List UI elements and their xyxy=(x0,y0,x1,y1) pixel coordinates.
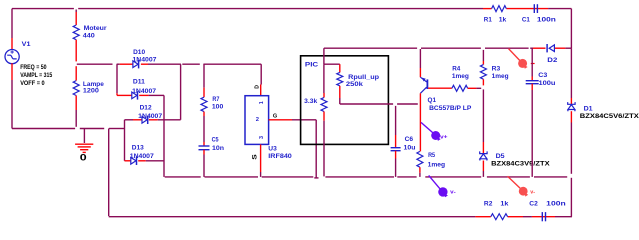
wire Q1 base row xyxy=(428,87,452,89)
svg-text:VAMPL = 315: VAMPL = 315 xyxy=(20,72,52,79)
svg-text:Moteur: Moteur xyxy=(84,25,107,32)
wire vertical D12-D13 xyxy=(124,120,126,161)
block PIC xyxy=(301,56,389,145)
wire Rpull_up top link xyxy=(324,64,340,72)
svg-text:100n: 100n xyxy=(537,16,556,23)
svg-text:100u: 100u xyxy=(539,80,556,87)
voltage source V1 xyxy=(5,41,31,64)
wire U3 gate row xyxy=(269,119,317,121)
wire supply corner into PIC xyxy=(323,48,325,97)
probe v- blue on mid rail xyxy=(429,175,456,197)
svg-text:0: 0 xyxy=(80,153,87,163)
svg-text:D12: D12 xyxy=(140,105,152,112)
wire gate net vertical xyxy=(314,120,318,178)
svg-text:FREQ = 50: FREQ = 50 xyxy=(20,64,47,71)
resistor R1 1k xyxy=(484,6,507,24)
svg-text:C5: C5 xyxy=(212,137,219,144)
svg-text:1N4007: 1N4007 xyxy=(138,113,162,120)
label V1 parameters xyxy=(20,64,52,87)
wire C3 bottom to mid rail xyxy=(531,84,533,177)
svg-text:3: 3 xyxy=(259,136,265,139)
wire V1 bottom xyxy=(11,63,13,128)
svg-text:BZX84C5V6/ZTX: BZX84C5V6/ZTX xyxy=(580,114,639,120)
svg-text:R4: R4 xyxy=(452,66,460,73)
svg-text:D13: D13 xyxy=(132,145,144,152)
wire vertical main row down to D12 row xyxy=(180,64,182,120)
svg-text:440: 440 xyxy=(83,33,95,40)
svg-text:v-: v- xyxy=(530,189,535,195)
wire D5 bottom xyxy=(482,161,484,177)
wire ground stub xyxy=(83,129,85,144)
svg-text:D5: D5 xyxy=(496,153,505,160)
wire main row to diode bridge xyxy=(77,63,261,65)
resistor R7 100 xyxy=(201,96,224,111)
svg-text:1N4007: 1N4007 xyxy=(130,153,154,160)
svg-text:R5: R5 xyxy=(428,152,435,159)
wire mid rail xyxy=(165,176,568,178)
ground 0 xyxy=(75,144,93,162)
wire R7 branch xyxy=(203,64,205,97)
diode D11 1N4007 xyxy=(132,79,157,100)
resistor 3.3k xyxy=(304,98,327,112)
svg-text:R7: R7 xyxy=(212,96,219,103)
svg-text:1: 1 xyxy=(259,101,265,104)
svg-text:100n: 100n xyxy=(546,200,566,207)
wire Rpull_up output row xyxy=(340,103,418,105)
svg-text:S: S xyxy=(253,154,259,160)
svg-text:v-: v- xyxy=(450,189,456,195)
wire D11 row xyxy=(117,94,164,96)
wire U3 drain from main row xyxy=(260,64,263,96)
svg-text:PIC: PIC xyxy=(305,62,319,69)
svg-text:D2: D2 xyxy=(547,57,557,64)
svg-text:VOFF = 0: VOFF = 0 xyxy=(20,80,45,87)
wire Q1 collector down to R5 xyxy=(419,93,421,151)
probe v- red on mid rail xyxy=(508,176,536,196)
wire red tick at C3 vertical xyxy=(531,63,535,65)
wire right vertical D2 to D1 xyxy=(570,48,572,104)
svg-text:D10: D10 xyxy=(133,49,145,56)
svg-text:C1: C1 xyxy=(522,16,530,23)
svg-text:1meg: 1meg xyxy=(492,73,509,80)
svg-text:D1: D1 xyxy=(584,105,593,112)
wire R5 bottom xyxy=(419,167,421,177)
svg-text:2: 2 xyxy=(256,117,259,123)
diode D12 1N4007 xyxy=(138,105,162,125)
zener diode D5 BZX84C3V9 xyxy=(480,151,550,167)
svg-text:Q1: Q1 xyxy=(428,97,437,104)
svg-text:10n: 10n xyxy=(212,145,224,152)
resistor Lampe 1200 xyxy=(73,81,104,96)
svg-text:1200: 1200 xyxy=(83,87,99,94)
svg-text:v+: v+ xyxy=(440,134,448,140)
svg-text:250k: 250k xyxy=(346,81,363,88)
wire right vertical from top rail xyxy=(570,9,572,49)
svg-text:IRF840: IRF840 xyxy=(268,153,292,160)
svg-text:U3: U3 xyxy=(268,145,277,152)
resistor Rpull_up 250k xyxy=(337,72,379,88)
wire Rpull_up bottom xyxy=(339,86,341,104)
svg-text:100: 100 xyxy=(212,104,224,111)
svg-text:BC557B/P LP: BC557B/P LP xyxy=(429,105,472,112)
svg-text:BZX84C3V9/ZTX: BZX84C3V9/ZTX xyxy=(491,162,549,168)
wire vertical D11 down to D13 row xyxy=(163,95,165,176)
svg-text:1N4007: 1N4007 xyxy=(132,88,156,95)
mosfet U3 IRF840 xyxy=(245,85,292,160)
svg-text:1meg: 1meg xyxy=(428,162,446,169)
capacitor C3 100u xyxy=(526,72,556,87)
wire Moteur top stub xyxy=(75,10,77,26)
capacitor C5 10n xyxy=(199,137,225,153)
wire Q1 emitter stub xyxy=(419,49,421,77)
capacitor C6 10u xyxy=(391,136,416,152)
resistor Moteur 440 xyxy=(73,25,107,40)
resistor R2 1k xyxy=(484,200,509,219)
svg-text:C3: C3 xyxy=(538,72,547,79)
svg-text:1meg: 1meg xyxy=(452,73,469,80)
wire C3 branch from supply row xyxy=(531,48,533,80)
svg-text:D11: D11 xyxy=(133,79,145,86)
wire Lampe top stub xyxy=(75,66,77,80)
svg-text:R1: R1 xyxy=(484,16,492,23)
svg-text:Rpull_up: Rpull_up xyxy=(348,74,379,81)
wire bottom bus (V1 return) xyxy=(12,128,125,130)
probe v+ on Q1 collector xyxy=(421,122,448,141)
svg-text:3.3k: 3.3k xyxy=(304,98,317,105)
wire R3 bottom to D5 xyxy=(482,79,484,153)
wire top rail left (mains phase) xyxy=(12,8,483,10)
svg-text:G: G xyxy=(273,114,277,120)
wire Moteur-Lampe junction xyxy=(75,40,77,62)
svg-text:R2: R2 xyxy=(484,200,493,207)
resistor R3 1meg xyxy=(480,65,508,80)
wire vertical D10-D11 xyxy=(116,64,118,95)
resistor R5 1meg xyxy=(417,151,445,168)
wire supply row y48 xyxy=(324,47,572,49)
wire V1 top stub xyxy=(11,9,13,50)
diode D2 xyxy=(547,44,558,64)
wire R7 to C5 xyxy=(203,112,205,146)
diode D13 1N4007 xyxy=(130,145,154,166)
wire D12 row xyxy=(125,119,181,121)
wire C6 branch xyxy=(395,106,397,148)
wire Lampe bottom xyxy=(75,96,77,127)
wire U3 source stub xyxy=(260,144,262,177)
diode D10 1N4007 xyxy=(133,49,157,69)
svg-text:10u: 10u xyxy=(404,144,416,151)
svg-text:1k: 1k xyxy=(500,200,508,207)
svg-text:1N4007: 1N4007 xyxy=(133,57,157,64)
resistor R4 1meg xyxy=(452,66,469,92)
capacitor C1 100n xyxy=(522,4,556,23)
transistor Q1 BC557B xyxy=(420,77,472,112)
wire top rail right with R1 C1 xyxy=(483,8,571,10)
wire C5 bottom xyxy=(203,150,205,177)
probe red on supply row xyxy=(509,49,528,69)
wire vertical bus to bottom rail xyxy=(108,129,110,217)
wire D13 row xyxy=(125,160,165,162)
wire 3.3k bottom to mid rail xyxy=(323,112,325,177)
wire D1 bottom to bottom rail xyxy=(570,111,572,217)
svg-text:C2: C2 xyxy=(529,200,538,207)
svg-text:D: D xyxy=(254,85,260,89)
svg-text:C6: C6 xyxy=(405,136,414,143)
capacitor C2 100n xyxy=(529,200,565,221)
svg-text:V1: V1 xyxy=(22,41,31,48)
wire R3 top stub xyxy=(482,50,484,65)
svg-text:1k: 1k xyxy=(499,16,507,23)
wire R4 to R3 vertical xyxy=(468,87,482,89)
wire bottom rail xyxy=(109,216,572,218)
svg-text:R3: R3 xyxy=(492,66,501,73)
zener diode D1 BZX84C5V6 xyxy=(568,102,639,120)
wire C6 bottom xyxy=(395,151,397,177)
